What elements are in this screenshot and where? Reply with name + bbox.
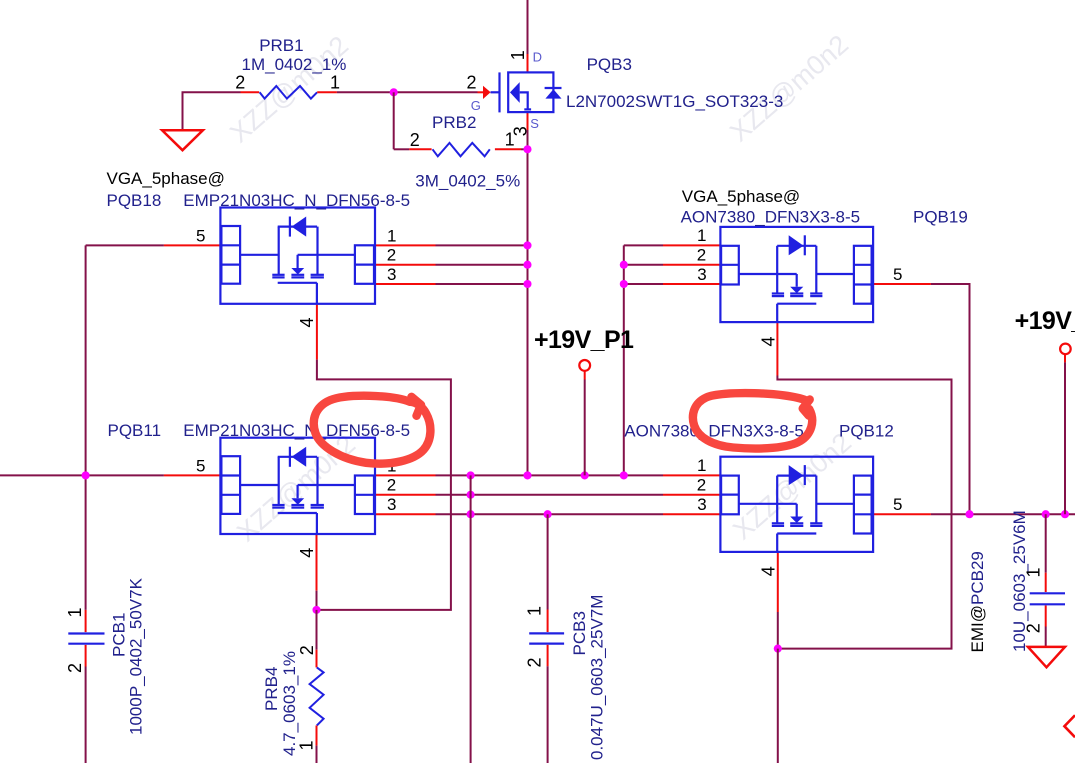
svg-text:1: 1 [297, 740, 317, 750]
annotation circle around DFN56-8-5 [314, 396, 431, 464]
wire red stub into gate arrow [478, 91, 484, 93]
svg-text:3: 3 [387, 265, 396, 284]
svg-text:+19V_P1: +19V_P1 [534, 326, 634, 354]
wire PQB18 pin 2 to main vertical [436, 264, 528, 266]
annotation circle around DFN3X3-8-5 [693, 393, 812, 448]
input arrow into PQB3 gate (pin 2) [483, 86, 491, 99]
svg-text:XZZ@m0n2: XZZ@m0n2 [231, 429, 361, 547]
svg-text:VGA_5phase@: VGA_5phase@ [107, 169, 225, 188]
svg-text:5: 5 [196, 456, 205, 475]
svg-text:3: 3 [387, 495, 396, 514]
wire PQB18 pin 1 to main vertical [436, 244, 528, 246]
svg-text:2: 2 [235, 72, 245, 92]
svg-text:L2N7002SWT1G_SOT323-3: L2N7002SWT1G_SOT323-3 [566, 92, 783, 111]
wire +19V right red stub [1064, 354, 1066, 362]
svg-text:EMI@PCB29: EMI@PCB29 [968, 551, 987, 652]
junction PQB12 pin4 node [774, 645, 782, 653]
wire PCB3 stem from row3 [547, 514, 549, 609]
wire PCB1 pin 1 red stub [85, 610, 87, 632]
wire main +19V vertical from top to PQB3 drain [527, 0, 529, 54]
wire PQB19 pin 2 red stub [663, 264, 720, 266]
junction row3-right +19V stem [1061, 510, 1069, 518]
transistor PQB3 body diode [545, 87, 562, 89]
wire bottom bus row 1 left segment [0, 474, 164, 476]
wire junction down to PRB2 [393, 92, 395, 149]
mosfet PQB19 drain/source verticals [776, 246, 778, 294]
wire PQB12 pin 1 red stub [663, 474, 720, 476]
wire PRB1 to gate junction [337, 91, 394, 93]
wire PQB19 pin 4 path to PQB12 pin 4 node [777, 376, 951, 649]
mosfet PQB11 gate leads [240, 484, 279, 486]
mosfet PQB11 body arrow [297, 485, 299, 498]
mosfet PQB11 body diode [278, 456, 317, 458]
svg-text:PRB1: PRB1 [259, 36, 303, 55]
wire PQB19 pin 5 corner down [931, 284, 970, 514]
mosfet PQB11 drain/source verticals [278, 457, 280, 505]
mosfet PQB18 left pin box (pin 5) [221, 226, 240, 284]
junction pin3/main [523, 280, 531, 288]
mosfet PQB18 gate leads [240, 254, 279, 256]
junction PRB4 node [312, 606, 320, 614]
wire +19V_P1 red stub [584, 371, 586, 380]
junction PRB2/PQB3 source [523, 145, 531, 153]
junction row1 x624 [620, 471, 628, 479]
mosfet PQB19 channel bars [772, 292, 784, 294]
wire PQB18 pin 5 red stub [164, 244, 221, 246]
wire bus row 2 middle [436, 494, 664, 496]
wire PQB11 pin 4 red stub [316, 534, 318, 591]
wire PRB1 pin 2 red stub [241, 91, 260, 93]
junction pin2/main [523, 261, 531, 269]
svg-text:1: 1 [1024, 567, 1044, 577]
mosfet PQB11 right pin box (pins 1-3) [355, 476, 374, 515]
mosfet PQB18 right pin box (pins 1-3) [355, 245, 374, 283]
svg-text:4: 4 [297, 548, 317, 558]
wire PQB19 pin 5 red stub [872, 283, 931, 285]
wire bus row 3 middle [436, 513, 664, 515]
mosfet PQB12 outer box [720, 457, 873, 552]
capacitor PCB1 plates [68, 632, 104, 634]
wire PQB12 pin 4 red stub [777, 552, 779, 612]
wire to PRB2 pin 2 [394, 148, 410, 150]
svg-text:PCB3: PCB3 [570, 611, 589, 655]
wire PQB3 drain red stub (pin 1) [527, 54, 529, 72]
wire PCB1 pin 2 red stub [85, 645, 87, 667]
wire PQB3 source red stub (pin 3) [527, 112, 529, 130]
wire PCB3 bottom [547, 666, 549, 763]
wire PQB11 pin 1 red stub [375, 474, 436, 476]
svg-text:PQB3: PQB3 [587, 55, 632, 74]
wire 10U pin 1 red stub [1045, 573, 1047, 592]
mosfet PQB19 substrate lead to pin 4 [777, 303, 816, 305]
wire 10U cap stem [1045, 514, 1047, 573]
svg-text:+19V_: +19V_ [1015, 307, 1075, 335]
mosfet PQB12 drain/source verticals [776, 476, 778, 524]
wire PRB4 top [316, 610, 318, 650]
svg-text:2: 2 [297, 645, 317, 655]
wire PRB1 pin 1 red stub [317, 91, 337, 93]
junction row2 x470 [467, 491, 475, 499]
mosfet PQB19 left pin box (pins 1-3) [721, 246, 739, 285]
svg-text:2: 2 [65, 663, 85, 673]
wire bus row 1 middle [436, 474, 664, 476]
svg-text:1: 1 [697, 226, 706, 245]
svg-text:PRB4: PRB4 [262, 667, 281, 711]
mosfet PQB11 substrate lead to pin 4 [278, 512, 317, 514]
mosfet PQB18 drain/source verticals [278, 227, 280, 275]
mosfet PQB11 left pin box (pin 5) [221, 456, 240, 514]
wire PQB18 pin 5 feed [86, 244, 164, 246]
mosfet PQB12 channel bars [772, 522, 784, 524]
svg-text:PQB11: PQB11 [108, 421, 162, 440]
capacitor EMI@PCB29 plates [1030, 592, 1065, 594]
junction row1 main vertical [523, 471, 531, 479]
mosfet PQB19 body diode [777, 245, 816, 247]
mosfet PQB19 right pin box (pin 5) [854, 246, 872, 304]
mosfet PQB18 body arrow [297, 255, 299, 268]
svg-text:G: G [471, 98, 481, 113]
wire PRB4 bottom [316, 746, 318, 763]
svg-text:2: 2 [467, 73, 477, 93]
junction row3 PCB3 stem [544, 510, 552, 518]
svg-text:3M_0402_5%: 3M_0402_5% [415, 171, 520, 190]
wire +19V_P1 stem down to row1 [584, 380, 586, 476]
mosfet PQB12 left pin box (pins 1-3) [721, 476, 739, 515]
capacitor PCB3 plates [529, 632, 564, 634]
junction pin2 x624 [620, 261, 628, 269]
junction row3-right 10U cap stem [1042, 510, 1050, 518]
wire PQB18 pin 3 to main vertical [436, 283, 528, 285]
node +19V_P1 circle [579, 360, 590, 371]
transistor PQB3 source lead [520, 92, 528, 110]
svg-text:2: 2 [525, 657, 545, 667]
svg-text:S: S [530, 116, 539, 131]
svg-text:EMP21N03HC_N_DFN56-8-5: EMP21N03HC_N_DFN56-8-5 [183, 421, 410, 440]
resistor PRB1 zigzag [260, 86, 318, 99]
mosfet PQB18 body diode [278, 226, 317, 228]
wire pin4 net to bottom [777, 649, 779, 763]
wire PQB12 pin 4 to node [777, 612, 779, 649]
node +19V right circle [1060, 344, 1071, 355]
mosfet PQB19 gate leads [739, 273, 797, 275]
mosfet PQB11 outer box [220, 438, 375, 534]
wire bus row3 right to edge [931, 513, 1075, 515]
wire PQB18 pin 1 red stub [375, 244, 436, 246]
svg-text:AON7380_DFN3X3-8-5: AON7380_DFN3X3-8-5 [681, 207, 861, 226]
wire PQB19 pin 3 feed [624, 283, 663, 285]
mosfet PQB12 body diode [777, 475, 816, 477]
svg-text:1: 1 [525, 606, 545, 616]
svg-text:1000P_0402_50V7K: 1000P_0402_50V7K [127, 577, 146, 735]
wire PQB11 pin 4 to node [316, 591, 318, 610]
wire 10U to ground [1045, 627, 1047, 647]
wire PQB18 pin 3 red stub [375, 283, 436, 285]
svg-text:4.7_0603_1%: 4.7_0603_1% [280, 651, 299, 756]
wire PQB11 pin 5 red stub [164, 474, 221, 476]
ground symbol (right) [1028, 647, 1065, 667]
svg-text:1: 1 [330, 72, 340, 92]
wire 10U pin 2 red stub [1045, 606, 1047, 627]
svg-text:5: 5 [893, 495, 902, 514]
svg-text:0.047U_0603_25V7M: 0.047U_0603_25V7M [588, 595, 607, 760]
wire PRB4 pin 2 red stub [316, 650, 318, 668]
junction pin3 x624 [620, 280, 628, 288]
wire PQB11 pin 2 red stub [375, 494, 436, 496]
svg-text:PRB2: PRB2 [432, 113, 476, 132]
wire PQB19 pin 3 red stub [663, 283, 720, 285]
wire +19V right stem to row [1064, 362, 1066, 514]
ground wire from PRB1 pin 2 [183, 92, 241, 130]
resistor PRB2 zigzag [433, 143, 490, 156]
mosfet PQB12 substrate lead to pin 4 [777, 532, 816, 534]
wire PQB19 pin 1 red stub [663, 244, 720, 246]
wire PQB18 pin 4 red stub [316, 304, 318, 360]
off-page chevron bottom right corner [1064, 715, 1075, 737]
junction pin1/main [523, 241, 531, 249]
svg-text:2: 2 [410, 130, 420, 150]
wire PQB12 pin 2 red stub [663, 494, 720, 496]
ground symbol (left) [162, 130, 203, 150]
svg-text:2: 2 [1024, 623, 1044, 633]
svg-text:1: 1 [508, 50, 528, 60]
wire PRB2 to source node [521, 148, 528, 150]
wire x470 vertical to bottom [470, 475, 472, 763]
svg-text:2: 2 [697, 476, 706, 495]
wire PQB18 pin 4 path to PRB4 node [317, 360, 451, 610]
svg-text:5: 5 [196, 226, 205, 245]
mosfet PQB19 body arrow [796, 274, 798, 287]
wire PQB12 pin 3 red stub [663, 513, 720, 515]
junction PRB1/PQB3 gate [390, 88, 398, 96]
mosfet PQB18 substrate lead to pin 4 [278, 282, 317, 284]
mosfet PQB18 outer box [220, 208, 375, 304]
svg-text:PQB12: PQB12 [839, 421, 894, 440]
wire PQB11 pin 3 red stub [375, 513, 436, 515]
svg-text:4: 4 [758, 566, 778, 576]
transistor PQB3 body box [508, 72, 553, 112]
wire PQB19 pin 2 feed [624, 264, 663, 266]
svg-text:EMP21N03HC_N_DFN56-8-5: EMP21N03HC_N_DFN56-8-5 [183, 191, 410, 210]
wire PRB2 pin 2 red stub [409, 148, 431, 150]
junction row3 x470 [467, 510, 475, 518]
mosfet PQB12 body arrow [796, 504, 798, 517]
transistor PQB3 gate bar [498, 72, 500, 112]
transistor PQB3 channel arrow [510, 82, 520, 103]
svg-text:VGA_5phase@: VGA_5phase@ [682, 187, 800, 206]
wire PCB3 pin 2 red stub [547, 645, 549, 667]
svg-text:1: 1 [65, 607, 85, 617]
svg-text:5: 5 [893, 265, 902, 284]
svg-text:3: 3 [697, 265, 706, 284]
wire PQB18 pin 2 red stub [375, 264, 436, 266]
svg-text:1M_0402_1%: 1M_0402_1% [242, 55, 347, 74]
wire PQB3 source down to bottom bus row 1 [527, 130, 529, 475]
wire PQB19 vertical feed x=624 [623, 245, 625, 475]
svg-text:XZZ@m0n2: XZZ@m0n2 [724, 29, 854, 147]
mosfet PQB12 right pin box (pin 5) [854, 476, 872, 534]
svg-text:1: 1 [697, 456, 706, 475]
mosfet PQB18 channel bars [272, 274, 284, 276]
junction row3-right PQB19 pin5 vertical [965, 510, 973, 518]
svg-text:D: D [533, 50, 542, 65]
svg-text:4: 4 [297, 317, 317, 327]
svg-text:PQB18: PQB18 [107, 191, 162, 210]
svg-text:3: 3 [697, 495, 706, 514]
svg-text:2: 2 [697, 246, 706, 265]
wire PRB2 pin 1 red stub [495, 148, 521, 150]
svg-text:1: 1 [387, 226, 396, 245]
junction row1 +19V_P1 stem [581, 471, 589, 479]
wire PQB12 pin 5 red stub [873, 513, 931, 515]
mosfet PQB19 outer box [720, 227, 873, 322]
wire left vertical x=86 down to bottom [85, 245, 87, 610]
svg-text:4: 4 [758, 336, 778, 346]
wire PCB3 pin 1 red stub [547, 610, 549, 633]
svg-text:2: 2 [387, 476, 396, 495]
wire PQB19 pin 1 feed [624, 244, 663, 246]
wire PRB4 pin 1 red stub [316, 726, 318, 746]
resistor PRB4 zigzag [310, 667, 324, 725]
wire junction to PQB3 gate arrow [394, 91, 478, 93]
svg-text:AON7380_DFN3X3-8-5: AON7380_DFN3X3-8-5 [624, 421, 804, 440]
mosfet PQB12 gate leads [739, 503, 797, 505]
svg-text:2: 2 [387, 246, 396, 265]
svg-text:PQB19: PQB19 [913, 207, 968, 226]
junction row1/left vertical [82, 471, 90, 479]
svg-text:3: 3 [511, 126, 531, 136]
mosfet PQB11 channel bars [272, 504, 284, 506]
wire PQB19 pin 4 red stub [776, 322, 778, 375]
junction row1 x470 [467, 471, 475, 479]
wire left vertical below PCB1 [85, 667, 87, 763]
